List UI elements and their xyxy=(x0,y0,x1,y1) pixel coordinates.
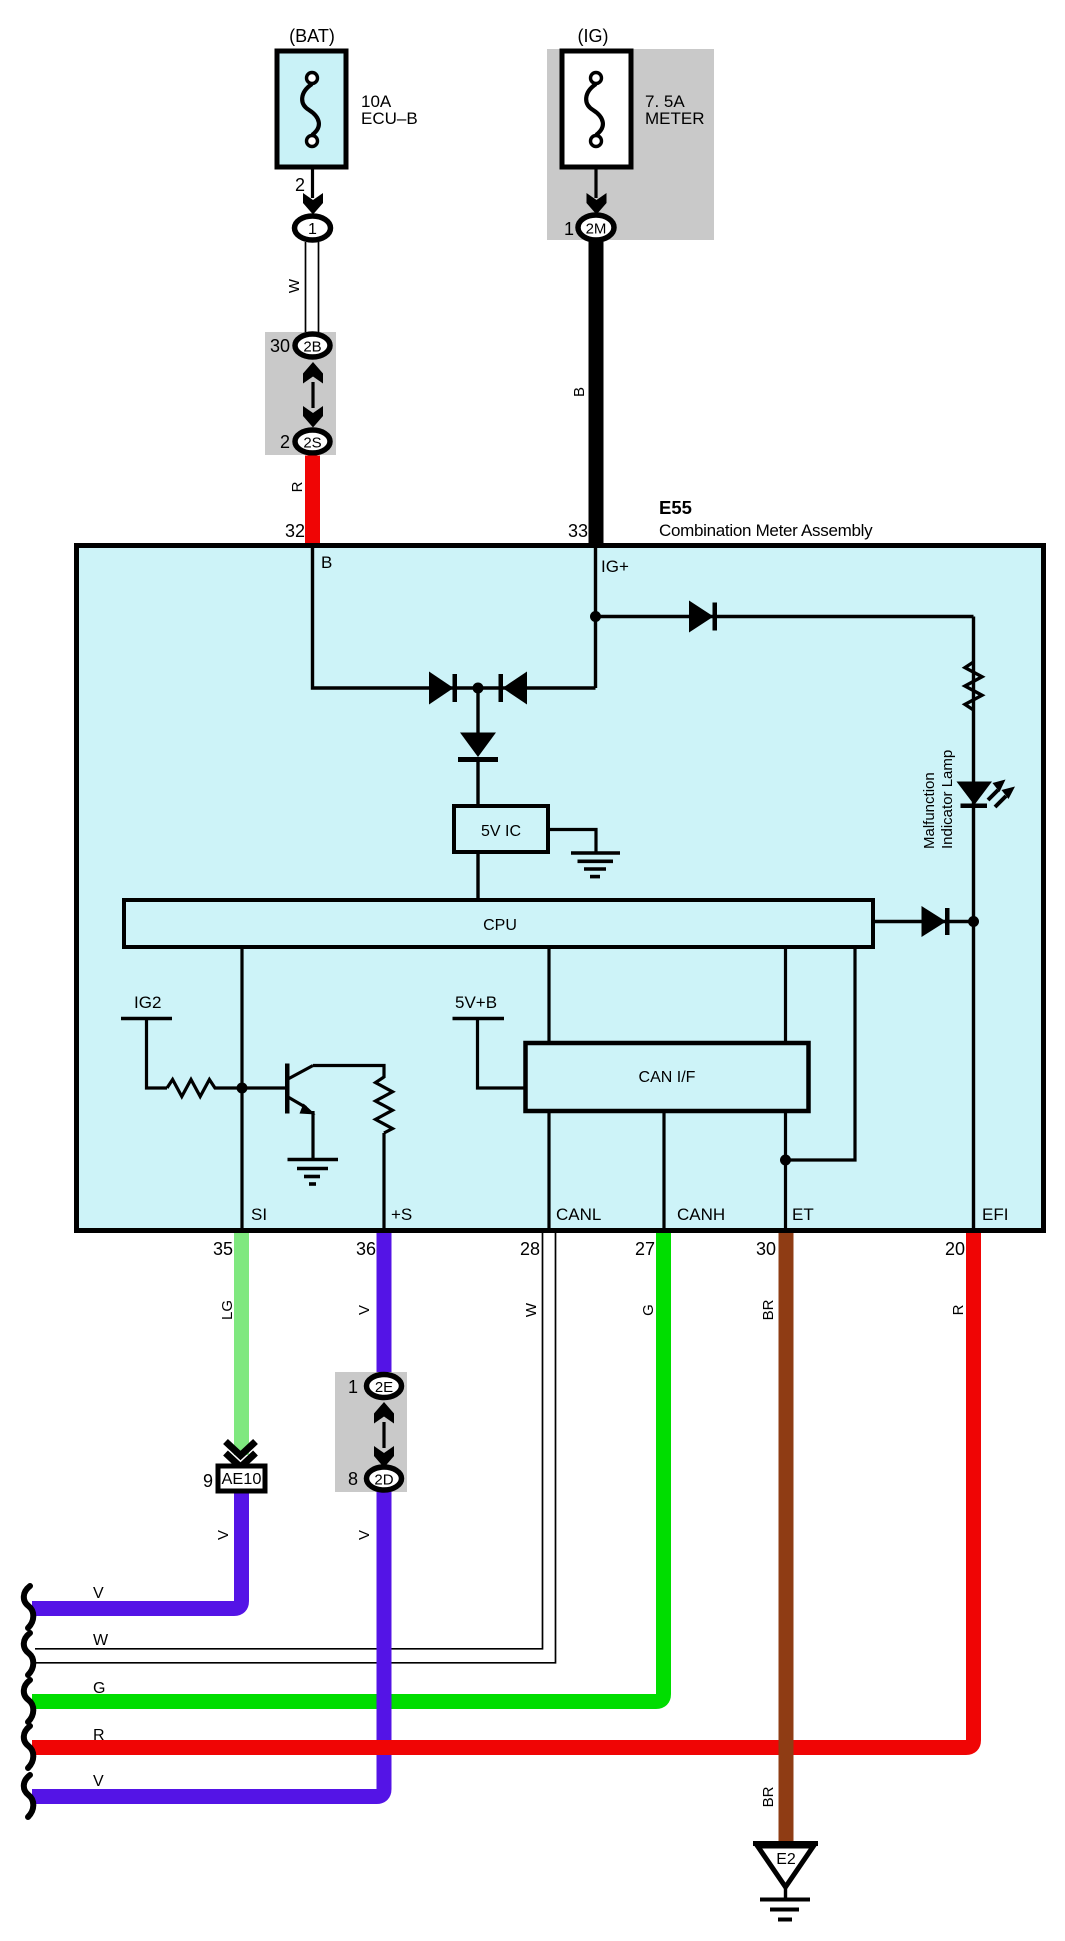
svg-text:METER: METER xyxy=(645,109,705,128)
svg-text:V: V xyxy=(356,1305,373,1315)
svg-text:2B: 2B xyxy=(303,339,321,356)
connector AE10 pin 9 xyxy=(203,1466,265,1491)
resistor R3 xyxy=(376,1077,393,1133)
wire CANL to pin 28 xyxy=(547,1111,550,1232)
wire 5V+B to CAN I/F xyxy=(478,1019,526,1089)
svg-text:Indicator Lamp: Indicator Lamp xyxy=(939,750,956,849)
svg-text:BR: BR xyxy=(760,1299,777,1320)
wire G green pin 27 xyxy=(32,1233,664,1702)
wire MIL branch vertical xyxy=(972,617,975,922)
wire R red 2S to pin 32 xyxy=(285,456,320,546)
CPU U2 xyxy=(124,900,873,947)
transistor Q1 xyxy=(285,1064,316,1115)
svg-text:CAN I/F: CAN I/F xyxy=(639,1069,696,1086)
node junction dot ET xyxy=(780,1155,791,1166)
svg-text:2E: 2E xyxy=(375,1379,393,1396)
wire R2 to base junction xyxy=(219,1086,287,1089)
arrow up to 2E xyxy=(374,1402,394,1424)
node junction dot EFI xyxy=(968,916,979,927)
arrow double chevron into AE10 xyxy=(226,1442,256,1472)
connector 2E pin 1 xyxy=(348,1375,402,1398)
wire R3 to +S pin 36 xyxy=(382,1133,385,1232)
ground G1 xyxy=(571,853,620,877)
squiggle break wire G xyxy=(24,1680,34,1722)
svg-text:ECU–B: ECU–B xyxy=(361,109,418,128)
svg-text:R: R xyxy=(93,1727,105,1744)
svg-text:2D: 2D xyxy=(374,1472,393,1489)
arrow down to 2S xyxy=(303,406,323,428)
svg-text:Combination Meter Assembly: Combination Meter Assembly xyxy=(659,521,873,540)
svg-text:G: G xyxy=(93,1680,105,1697)
svg-text:E2: E2 xyxy=(776,1851,796,1868)
svg-text:B: B xyxy=(321,553,332,572)
svg-text:8: 8 xyxy=(348,1469,358,1489)
resistor R1 xyxy=(965,662,982,710)
label Malfunction Indicator Lamp xyxy=(921,750,956,849)
svg-text:LG: LG xyxy=(219,1300,236,1320)
svg-text:EFI: EFI xyxy=(982,1205,1008,1224)
svg-text:R: R xyxy=(289,481,306,492)
svg-text:W: W xyxy=(286,278,303,293)
node junction dot between D1 D2 xyxy=(473,683,484,694)
svg-text:V: V xyxy=(93,1773,104,1790)
svg-text:SI: SI xyxy=(251,1205,267,1224)
resistor R2 xyxy=(167,1080,219,1097)
LED D4 Malfunction Indicator Lamp xyxy=(957,780,1016,809)
wire CPU to ET junction xyxy=(786,949,856,1160)
svg-text:CANL: CANL xyxy=(556,1205,601,1224)
svg-text:5V+B: 5V+B xyxy=(455,993,497,1012)
svg-text:R: R xyxy=(950,1304,967,1315)
arrow into connector 1 xyxy=(303,193,323,215)
svg-text:B: B xyxy=(571,387,588,397)
wire CPU to CAN I/F left xyxy=(547,949,550,1043)
connector 2S pin 2 xyxy=(280,430,330,453)
node junction dot IG+ xyxy=(590,611,601,622)
wire IG2 to resistor R2 xyxy=(147,1019,168,1089)
wire W double line pin 28 xyxy=(35,1233,556,1663)
arrow into connector 2M xyxy=(587,193,607,215)
diode D3 xyxy=(689,601,717,633)
svg-text:Malfunction: Malfunction xyxy=(921,772,938,849)
node IG+ pin 33 internal wire xyxy=(596,548,629,688)
svg-text:V: V xyxy=(356,1530,373,1540)
connector 2M pin 1 xyxy=(564,215,614,240)
svg-text:1: 1 xyxy=(308,221,317,238)
squiggle break wire R xyxy=(24,1726,34,1768)
svg-text:IG2: IG2 xyxy=(134,993,161,1012)
fuse F1 10A ECU-B (BAT) xyxy=(277,26,418,167)
squiggle break wire V2 xyxy=(24,1775,34,1817)
diode D5 CPU to EFI xyxy=(875,906,974,937)
wire from F1 to connector 1 xyxy=(295,169,313,198)
svg-text:2S: 2S xyxy=(303,435,321,452)
wire V violet pin 36 to 2E xyxy=(356,1233,392,1374)
ground E2 xyxy=(753,1844,818,1920)
svg-text:28: 28 xyxy=(520,1239,540,1259)
wire B black 2M to pin 33 xyxy=(568,239,604,545)
wire 5V IC to ground xyxy=(548,830,596,853)
svg-text:32: 32 xyxy=(285,521,305,541)
wire collector to +S resistor xyxy=(313,1066,384,1079)
wire V violet AE10 to left edge xyxy=(32,1487,242,1609)
junction block gray 2E-2D xyxy=(335,1372,407,1492)
squiggle break wire W xyxy=(24,1633,34,1675)
wire between arrows xyxy=(311,382,314,408)
wire between diodes D1 D2 xyxy=(429,686,596,689)
wire BR brown pin 30 to E2 xyxy=(760,1233,794,1843)
svg-text:E55: E55 xyxy=(659,497,692,518)
wire 5V IC to CPU xyxy=(476,852,479,900)
svg-text:36: 36 xyxy=(356,1239,376,1259)
svg-text:30: 30 xyxy=(756,1239,776,1259)
diode D1 xyxy=(429,672,457,705)
node junction dot SI xyxy=(237,1083,248,1094)
svg-text:W: W xyxy=(523,1302,540,1317)
svg-text:AE10: AE10 xyxy=(222,1471,262,1488)
svg-text:5V IC: 5V IC xyxy=(481,823,521,840)
diode D6 xyxy=(458,733,498,763)
wire W (double line) connector 1 to 2B xyxy=(286,242,319,334)
connector 2B pin 30 xyxy=(270,334,330,357)
wire from F2 to connector 2M xyxy=(594,169,597,198)
E55 Combination Meter Assembly box xyxy=(77,546,1044,1231)
svg-text:W: W xyxy=(93,1632,109,1649)
label IG2 xyxy=(121,993,172,1019)
fuse F2 7.5A METER (IG) gray background xyxy=(547,49,714,240)
svg-text:CANH: CANH xyxy=(677,1205,725,1224)
ground G2 xyxy=(288,1160,339,1185)
arrow down to 2D xyxy=(374,1446,394,1468)
wire CPU to SI junction xyxy=(240,949,243,1232)
label 5V+B xyxy=(453,993,505,1019)
wire ET to pin 30 xyxy=(784,1111,787,1232)
svg-text:2: 2 xyxy=(295,175,305,195)
connector 2D pin 8 xyxy=(348,1467,402,1490)
wire V violet 2D to left edge xyxy=(32,1484,384,1797)
arrow up to 2B xyxy=(303,362,323,384)
wire D6 to 5V IC xyxy=(476,762,479,806)
svg-text:V: V xyxy=(215,1530,232,1540)
svg-text:CPU: CPU xyxy=(483,917,517,934)
svg-text:2: 2 xyxy=(280,432,290,452)
junction block J/B gray 2B-2S xyxy=(265,332,336,455)
5V IC U1 xyxy=(454,806,548,852)
svg-text:33: 33 xyxy=(568,521,588,541)
svg-text:BR: BR xyxy=(760,1786,777,1807)
wire EFI vertical to pin 20 xyxy=(972,922,975,1233)
wire junction D1D2 down to diode D6 xyxy=(476,688,479,736)
squiggle break wire V1 xyxy=(24,1586,34,1628)
svg-text:9: 9 xyxy=(203,1471,213,1491)
svg-text:1: 1 xyxy=(348,1377,358,1397)
wire CPU to CAN I/F right xyxy=(784,949,787,1043)
wire R red pin 20 to left edge xyxy=(32,1233,974,1748)
svg-text:1: 1 xyxy=(564,219,574,239)
svg-text:20: 20 xyxy=(945,1239,965,1259)
wire LG pin 35 to AE10 xyxy=(219,1233,249,1455)
svg-text:V: V xyxy=(93,1585,104,1602)
svg-text:G: G xyxy=(640,1304,657,1316)
svg-text:35: 35 xyxy=(213,1239,233,1259)
wire CANH to pin 27 xyxy=(662,1111,665,1232)
diode D2 xyxy=(499,672,528,705)
CAN I/F U3 xyxy=(526,1043,809,1111)
wire IG+ junction to MIL branch xyxy=(596,615,974,618)
svg-text:IG+: IG+ xyxy=(601,557,629,576)
wire between arrows 2E-2D xyxy=(382,1422,385,1448)
svg-text:30: 30 xyxy=(270,336,290,356)
node B pin 32 internal wire xyxy=(313,548,430,688)
svg-text:+S: +S xyxy=(391,1205,412,1224)
svg-text:(IG): (IG) xyxy=(578,26,609,46)
fuse F2 7.5A METER (IG) xyxy=(562,26,705,167)
svg-text:ET: ET xyxy=(792,1205,814,1224)
wire emitter to ground G2 xyxy=(311,1111,314,1160)
svg-text:(BAT): (BAT) xyxy=(289,26,335,46)
svg-text:2M: 2M xyxy=(586,221,607,238)
svg-text:27: 27 xyxy=(635,1239,655,1259)
connector 1 xyxy=(295,216,331,240)
